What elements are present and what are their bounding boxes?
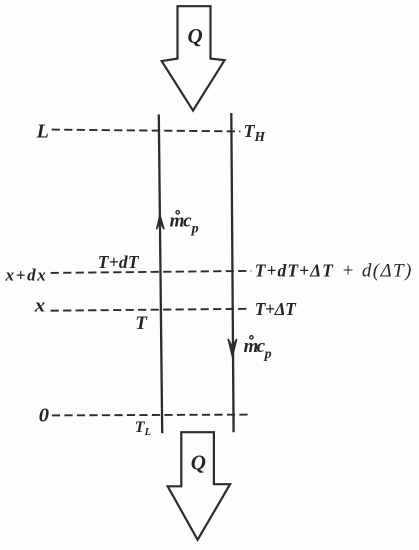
svg-text:+ d(ΔT): + d(ΔT)	[342, 260, 412, 281]
dashed level line x	[51, 309, 248, 311]
svg-text:0: 0	[39, 405, 49, 427]
down flow arrowhead on right wall	[228, 339, 236, 356]
svg-text:TL: TL	[135, 419, 151, 438]
dashed level line L	[52, 130, 241, 132]
svg-text:T+dT+ΔT: T+dT+ΔT	[255, 260, 334, 280]
dashed level line x+dx	[51, 271, 252, 273]
svg-text:Q: Q	[191, 450, 206, 474]
svg-text:T: T	[135, 313, 148, 334]
svg-text:TH: TH	[244, 121, 266, 144]
left channel wall (vertical line)	[159, 115, 162, 434]
svg-text:p: p	[191, 222, 199, 237]
svg-text:T+ΔT: T+ΔT	[255, 299, 297, 319]
svg-text:mc: mc	[170, 210, 193, 231]
right channel wall (vertical line)	[231, 113, 233, 432]
heat input block arrow Q (top)	[162, 6, 225, 110]
svg-text:mc: mc	[244, 336, 266, 357]
svg-text:x+dx: x+dx	[5, 266, 47, 285]
svg-text:T+dT: T+dT	[98, 252, 140, 272]
label mdot c_p (lower)	[244, 336, 272, 363]
svg-text:x: x	[34, 296, 46, 317]
dashed level line 0	[52, 414, 250, 417]
svg-text:L: L	[36, 120, 49, 142]
label mdot c_p (upper)	[170, 210, 199, 236]
heat output block arrow Q (bottom)	[168, 432, 230, 540]
svg-text:Q: Q	[188, 24, 203, 48]
up flow arrowhead on left wall	[157, 215, 164, 229]
svg-text:p: p	[264, 347, 272, 362]
